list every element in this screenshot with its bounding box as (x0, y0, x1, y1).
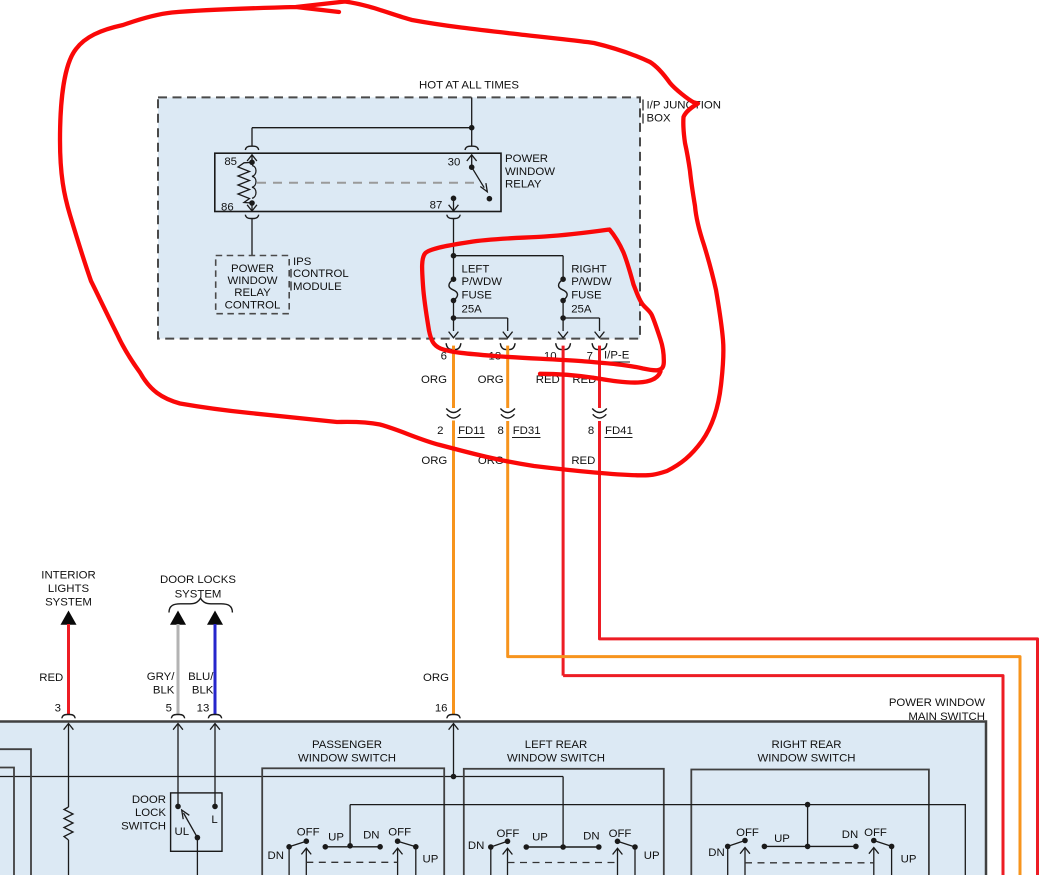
passenger switch: right actuator arrow (393, 848, 403, 854)
svg-text:MODULE: MODULE (293, 281, 342, 293)
driver switch inner box (cut off) (0, 768, 14, 875)
wire: branch to pin 18 (454, 317, 508, 319)
svg-text:5: 5 (166, 702, 172, 714)
svg-text:BLK: BLK (153, 684, 175, 696)
svg-text:8: 8 (497, 425, 503, 437)
svg-text:OFF: OFF (497, 828, 520, 840)
right rear window switch box (691, 770, 929, 875)
svg-text:25A: 25A (571, 304, 592, 316)
passenger switch: left actuator arrow (301, 848, 311, 854)
relay mechanical link (dashed) (257, 182, 478, 184)
pin 30 entry arrow (467, 155, 477, 161)
pin 7 exit arrow (595, 332, 605, 338)
node: right rear feed junction (805, 802, 811, 808)
svg-text:DN: DN (363, 830, 379, 842)
pin entry arrow (210, 724, 220, 730)
pin entry arrow (173, 724, 183, 730)
passenger switch: DN contact wire down (288, 847, 290, 875)
wire: RED pin10 down (red) (562, 346, 565, 676)
door lock switch lever (184, 813, 198, 838)
pin 85 connector arc (245, 146, 258, 150)
wire: left rear switch feed (562, 777, 564, 848)
svg-text:LEFT REAR: LEFT REAR (525, 739, 587, 751)
right rear switch: right lever (pivot to UP contact) (871, 838, 877, 844)
wire: pin 13 to door lock switch (214, 760, 216, 806)
svg-text:2: 2 (437, 425, 443, 437)
power window relay box (215, 153, 501, 211)
svg-text:BOX: BOX (647, 113, 671, 125)
wire: RED FD41 down-right (red) (600, 421, 1038, 875)
svg-text:WINDOW SWITCH: WINDOW SWITCH (298, 752, 396, 764)
svg-text:RED: RED (571, 455, 595, 467)
svg-text:OFF: OFF (736, 827, 759, 839)
pin entry arrow (64, 724, 74, 730)
passenger switch: left lever (pivot to DN contact) (286, 844, 292, 850)
svg-text:I/P-E: I/P-E (604, 350, 630, 362)
door lock switch box (171, 793, 222, 851)
wire: ORG FD11 to main switch pin 16 (orange) (452, 421, 455, 715)
right rear switch: left lever (pivot to DN contact) (725, 844, 731, 850)
svg-text:POWER: POWER (231, 263, 274, 275)
svg-text:RELAY: RELAY (234, 287, 271, 299)
wire: pin 3 to illumination resistor (68, 760, 70, 807)
main switch pin 3 connector arc (62, 715, 75, 719)
I/P junction box (dashed, blue fill) (158, 97, 640, 338)
left rear switch: right lever (pivot to UP contact) (615, 839, 621, 845)
connector FD31 (500, 409, 515, 413)
svg-text:BLK: BLK (192, 684, 214, 696)
svg-text:SYSTEM: SYSTEM (175, 588, 222, 600)
wire: resistor down (68, 840, 70, 875)
svg-text:UP: UP (901, 854, 917, 866)
svg-text:OFF: OFF (297, 827, 320, 839)
wire: right fuse output (562, 301, 564, 332)
left rear switch: left actuator arrow (503, 848, 513, 854)
wire: branch to relay coil pin 85 (252, 127, 472, 129)
pin 86 connector arc (245, 215, 258, 219)
main switch pin 13 connector arc (208, 715, 221, 719)
wire: RED pin7 to FD41 (red) (598, 346, 601, 408)
svg-text:DN: DN (468, 840, 484, 852)
node: relay coil bottom (249, 200, 255, 206)
svg-text:FD11: FD11 (458, 425, 485, 437)
svg-text:16: 16 (435, 702, 448, 714)
connector FD41 (592, 409, 607, 413)
node: door lock common (195, 835, 201, 841)
svg-text:IPS: IPS (293, 256, 312, 268)
annotation: inner loop tail stroke (540, 372, 661, 383)
svg-text:LEFT: LEFT (462, 264, 490, 276)
annotation: outer red loop (freehand) (60, 2, 723, 476)
wire: pin 5 to door lock switch (177, 760, 179, 806)
pin 87 exit arrow (449, 205, 459, 211)
svg-text:DN: DN (583, 830, 599, 842)
svg-text:ORG: ORG (421, 455, 447, 467)
bus: window switch feed rail (350, 805, 965, 875)
left rear switch: left lever (pivot to DN contact) (488, 844, 494, 850)
left rear switch: DN contact wire down (490, 847, 492, 875)
svg-text:UP: UP (774, 833, 790, 845)
annotation: inner red loop around fuses (freehand) (422, 230, 664, 371)
pin 85 entry arrow (247, 155, 257, 161)
wire: ORG pin18 to FD31 (orange) (506, 346, 509, 408)
svg-text:UL: UL (175, 826, 190, 838)
svg-text:DN: DN (268, 850, 284, 862)
svg-text:UP: UP (423, 854, 439, 866)
svg-text:LIGHTS: LIGHTS (48, 583, 90, 595)
svg-text:UP: UP (328, 832, 344, 844)
svg-text:8: 8 (588, 425, 594, 437)
wire: left fuse output (453, 301, 455, 332)
svg-text:3: 3 (55, 702, 61, 714)
svg-text:LOCK: LOCK (135, 807, 166, 819)
svg-text:FUSE: FUSE (462, 290, 493, 302)
relay coil arcs (252, 166, 256, 199)
svg-text:FD31: FD31 (513, 425, 541, 437)
right rear switch: UP contact wire down (891, 846, 893, 875)
right rear switch: right actuator arrow (869, 848, 879, 854)
wire: BLU/BLK to door locks (blue) (214, 624, 217, 715)
svg-text:SYSTEM: SYSTEM (45, 597, 92, 609)
left rear switch: right actuator arrow (613, 848, 623, 854)
svg-text:SWITCH: SWITCH (121, 820, 166, 832)
power window main switch box (0, 722, 986, 875)
left rear switch: center bus contacts (524, 844, 530, 850)
off-page arrow door locks GRY/BLK (170, 611, 186, 625)
main switch pin 16 connector arc (447, 715, 460, 719)
passenger window switch box (262, 768, 444, 875)
bus: pin 16 supply rail (0, 776, 563, 778)
node: relay common contact (469, 164, 475, 170)
wire: pin 87 to fuse split (453, 219, 455, 279)
relay switch lever (472, 167, 485, 188)
svg-text:I/P JUNCTION: I/P JUNCTION (647, 100, 721, 112)
node: fuse feed junction (451, 253, 457, 259)
wire: RED to interior lights (red) (67, 624, 70, 715)
svg-text:WINDOW: WINDOW (505, 166, 555, 178)
passenger switch: right lever (pivot to UP contact) (395, 838, 401, 844)
svg-text:RELAY: RELAY (505, 179, 542, 191)
svg-text:ORG: ORG (478, 374, 504, 386)
svg-text:FUSE: FUSE (571, 290, 602, 302)
node: left fuse output split (451, 315, 457, 321)
wire: door lock common down (196, 838, 198, 875)
pin 87 connector arc (447, 215, 460, 219)
left rear switch: UP contact wire down (634, 847, 636, 875)
power window relay control box (dashed) (216, 256, 290, 314)
svg-text:OFF: OFF (609, 828, 632, 840)
node: junction dot battery feed (469, 125, 475, 131)
relay resistor (parallel zigzag) (238, 162, 252, 203)
brace over door locks arrows (169, 598, 232, 612)
svg-text:CONTROL: CONTROL (225, 299, 281, 311)
svg-text:ORG: ORG (421, 374, 447, 386)
pin 30 connector arc (465, 146, 478, 150)
svg-text:30: 30 (448, 157, 461, 169)
fuse: LEFT P/WDW FUSE 25A (451, 276, 457, 282)
wire: branch to pin 7 (563, 317, 599, 319)
svg-text:L: L (211, 814, 217, 826)
svg-text:ORG: ORG (423, 672, 449, 684)
svg-text:POWER WINDOW: POWER WINDOW (889, 697, 985, 709)
connector I/P-E pin 7 arc (592, 343, 607, 349)
node: relay coil top (249, 160, 255, 166)
right rear switch: mechanical link (dashed) (745, 862, 874, 864)
wire: ORG FD31 down-right (orange) (508, 421, 1020, 875)
wire: GRY/BLK to door locks (grey) (177, 624, 180, 715)
svg-text:85: 85 (224, 156, 237, 168)
right rear switch: DN contact wire down (727, 846, 729, 875)
node: door lock L contact (212, 804, 218, 810)
passenger switch: center bus contacts (323, 844, 329, 850)
wire: battery feed down from HOT AT ALL TIMES (471, 97, 473, 146)
node: pin 87 terminal (451, 196, 457, 202)
svg-text:87: 87 (430, 200, 443, 212)
svg-text:RED: RED (39, 672, 63, 684)
wire: passenger switch feed (349, 805, 351, 846)
connector I/P-E pin 6 arc (446, 343, 461, 349)
svg-text:UP: UP (532, 832, 548, 844)
svg-text:RIGHT REAR: RIGHT REAR (771, 739, 841, 751)
svg-text:25A: 25A (462, 304, 483, 316)
wire: right rear switch feed (807, 805, 809, 847)
svg-text:DOOR: DOOR (132, 794, 166, 806)
svg-text:P/WDW: P/WDW (571, 276, 612, 288)
svg-text:POWER: POWER (505, 153, 548, 165)
connector I/P-E pin 18 arc (500, 343, 515, 349)
wire: feed to right fuse (454, 255, 564, 257)
svg-text:DOOR LOCKS: DOOR LOCKS (160, 574, 236, 586)
node: door lock UL contact (175, 804, 181, 810)
pin 16 entry arrow (449, 724, 459, 730)
svg-text:WINDOW SWITCH: WINDOW SWITCH (757, 752, 855, 764)
off-page arrow to interior lights (61, 611, 77, 625)
pin 10 exit arrow (558, 332, 568, 338)
right rear switch: center bus contacts (762, 844, 768, 850)
off-page arrow door locks BLU/BLK (207, 611, 223, 625)
svg-text:13: 13 (197, 702, 210, 714)
svg-text:OFF: OFF (864, 827, 887, 839)
left rear switch: mechanical link (dashed) (508, 862, 618, 864)
driver window switch box (cut off at left) (0, 749, 31, 875)
connector I/P-E pin 10 arc (556, 343, 571, 349)
wire: pin 86 to IPS control module (251, 219, 253, 256)
svg-text:INTERIOR: INTERIOR (41, 570, 95, 582)
svg-text:P/WDW: P/WDW (462, 276, 503, 288)
svg-text:FD41: FD41 (605, 425, 633, 437)
svg-text:UP: UP (644, 850, 660, 862)
svg-text:BLU/: BLU/ (188, 671, 214, 683)
pin 86 exit arrow (247, 205, 257, 211)
node: right fuse output split (560, 315, 566, 321)
connector FD11 (446, 409, 461, 413)
pin 6 exit arrow (449, 332, 459, 338)
svg-text:HOT AT ALL TIMES: HOT AT ALL TIMES (419, 80, 519, 92)
wire: RED pin10 right-down (red) (563, 676, 1003, 875)
svg-text:GRY/: GRY/ (147, 671, 175, 683)
passenger switch: mechanical link (dashed) (306, 861, 397, 863)
svg-text:RIGHT: RIGHT (571, 264, 606, 276)
svg-text:PASSENGER: PASSENGER (312, 739, 382, 751)
left rear window switch box (464, 769, 664, 875)
passenger switch: UP contact wire down (415, 847, 417, 875)
resistor: illumination (64, 807, 73, 840)
svg-text:86: 86 (221, 201, 234, 213)
svg-text:DN: DN (842, 829, 858, 841)
svg-text:CONTROL: CONTROL (293, 268, 349, 280)
svg-text:WINDOW SWITCH: WINDOW SWITCH (507, 752, 605, 764)
pin 18 exit arrow (503, 332, 513, 338)
right rear switch: left actuator arrow (740, 848, 750, 854)
node: relay NO contact (487, 196, 493, 202)
svg-text:OFF: OFF (388, 827, 411, 839)
node: pin 16 junction (451, 774, 457, 780)
wire: ORG pin6 to FD11 (orange) (452, 346, 455, 408)
svg-text:DN: DN (708, 847, 724, 859)
svg-text:WINDOW: WINDOW (228, 275, 278, 287)
fuse: RIGHT P/WDW FUSE 25A (560, 276, 566, 282)
main switch pin 5 connector arc (171, 715, 184, 719)
